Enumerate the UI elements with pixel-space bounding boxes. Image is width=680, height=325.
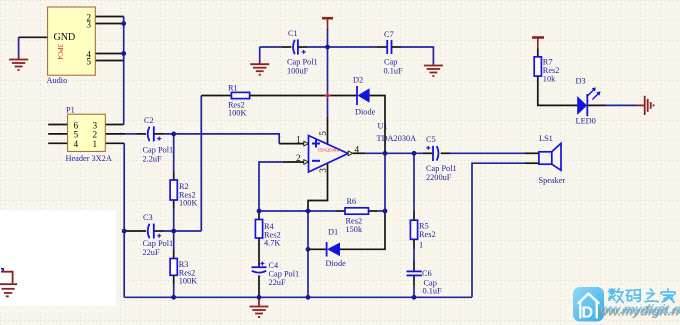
opamp pin3 lead bbox=[308, 163, 328, 211]
家 bbox=[661, 289, 675, 302]
R1 leads row bbox=[201, 95, 231, 97]
svg-text:100K: 100K bbox=[179, 277, 197, 286]
svg-text:1: 1 bbox=[419, 240, 423, 249]
wire: C2 to opamp step bbox=[164, 134, 279, 144]
wire: C3 row bbox=[164, 230, 201, 232]
svg-text:C5: C5 bbox=[426, 135, 436, 144]
wire: R2 column bbox=[173, 134, 175, 172]
wire: header pin2 to C2 bbox=[125, 133, 137, 135]
LED D3 bbox=[576, 77, 601, 126]
svg-text:22uF: 22uF bbox=[143, 248, 160, 257]
C3 plates bbox=[148, 224, 150, 238]
svg-text:Cap Pol1: Cap Pol1 bbox=[287, 58, 318, 67]
junction FB row / R6 left / D1 branch bbox=[306, 209, 311, 214]
junction C4 / gnd rail bbox=[257, 295, 262, 300]
svg-text:LS1: LS1 bbox=[539, 134, 553, 143]
svg-text:100uF: 100uF bbox=[287, 67, 309, 76]
wire: LED to gnd bbox=[606, 104, 636, 106]
R5 leads bbox=[413, 211, 415, 221]
C4 plates bbox=[252, 266, 267, 268]
red junction marker at power/D2 node bbox=[325, 93, 331, 99]
junction C2 out / R2 top (node IN+) bbox=[171, 132, 176, 137]
svg-text:100K: 100K bbox=[179, 199, 197, 208]
wire: audio gnd drop bbox=[18, 37, 20, 56]
R4 leads bbox=[258, 211, 260, 220]
C1 pin leads bbox=[282, 46, 291, 48]
wire: R1 left vertical bbox=[200, 96, 202, 232]
junction D1 left / branch vertical bbox=[306, 247, 311, 252]
capacitor C2 bbox=[143, 116, 174, 164]
U1 minus input marker bbox=[312, 160, 320, 162]
svg-text:Res2: Res2 bbox=[419, 230, 436, 239]
D2 leads bbox=[370, 96, 385, 154]
svg-text:D: D bbox=[582, 305, 594, 322]
svg-text:D1: D1 bbox=[328, 228, 338, 237]
opamp pin5 lead bbox=[327, 117, 329, 144]
LS1 box bbox=[539, 152, 552, 164]
capacitor C6 bbox=[407, 269, 443, 296]
svg-text:Diode: Diode bbox=[355, 108, 376, 117]
ground right of LED (rotated) bbox=[636, 96, 654, 115]
black pin segments bbox=[19, 17, 606, 298]
junction R3 bottom / gnd rail bbox=[171, 295, 176, 300]
码 bbox=[626, 290, 640, 302]
capacitor C5 bbox=[426, 135, 457, 182]
svg-text:1: 1 bbox=[93, 140, 98, 150]
svg-text:Speaker: Speaker bbox=[539, 176, 566, 185]
resistor R3 bbox=[170, 259, 197, 286]
svg-text:TDA2030A: TDA2030A bbox=[377, 134, 417, 143]
C6 leads bbox=[413, 262, 415, 272]
svg-text:U1: U1 bbox=[378, 122, 388, 131]
wire: bottom rail bbox=[124, 296, 472, 298]
ground below C1 bbox=[250, 63, 269, 75]
svg-text:3: 3 bbox=[319, 168, 329, 173]
svg-text:5: 5 bbox=[86, 57, 91, 67]
power bar VCC above R7 bbox=[532, 38, 544, 49]
audio connector pins bbox=[95, 16, 123, 18]
wire: C1 row bbox=[260, 46, 282, 48]
LS1 horn bbox=[552, 143, 561, 170]
wire: header pin1 down long vertical bbox=[123, 143, 125, 297]
junction C6 / gnd rail bbox=[412, 295, 417, 300]
D3 triangle bbox=[577, 96, 587, 115]
junction output / D2 branch bbox=[383, 151, 388, 156]
R7 body bbox=[534, 57, 541, 76]
wire: pin2 to feedback node bbox=[259, 162, 283, 211]
junction left bus / C3 row bbox=[122, 229, 127, 234]
svg-text:0.1uF: 0.1uF bbox=[384, 67, 404, 76]
capacitor C3 bbox=[143, 213, 174, 257]
svg-text:5: 5 bbox=[319, 131, 329, 136]
svg-text:Cap Pol1: Cap Pol1 bbox=[143, 239, 174, 248]
U1 pin 1 arrowhead bbox=[304, 141, 309, 146]
C6 plates bbox=[407, 270, 422, 272]
wire: D1 branch vertical bbox=[307, 211, 309, 297]
R7 leads bbox=[537, 49, 539, 57]
ground bottom-left margin bbox=[0, 272, 17, 297]
svg-text:GND: GND bbox=[54, 32, 76, 43]
resistor R4 bbox=[255, 220, 280, 248]
white margin area bottom-left bbox=[0, 211, 116, 307]
wire: audio pins bus vertical bbox=[123, 17, 125, 125]
junction audio pin3 / bus bbox=[121, 21, 126, 26]
wire: feedback row bbox=[259, 210, 336, 212]
wire: R5 column bbox=[413, 153, 415, 210]
svg-text:3PC4: 3PC4 bbox=[56, 44, 64, 60]
junction pin2 / R4 top (node FB) bbox=[257, 209, 262, 214]
wire: speaker return bbox=[472, 163, 525, 297]
R2 leads bbox=[173, 172, 175, 181]
ground below C4 bbox=[250, 297, 269, 317]
diode D1 bbox=[326, 228, 347, 268]
connector P1 bbox=[66, 105, 112, 163]
之 bbox=[645, 289, 658, 302]
power bar VCC top center bbox=[322, 18, 333, 29]
U1 pin 4 arrowhead bbox=[348, 151, 353, 156]
svg-text:100K: 100K bbox=[228, 109, 246, 118]
svg-text:4.7K: 4.7K bbox=[264, 239, 280, 248]
R1 body bbox=[231, 92, 249, 98]
svg-text:C1: C1 bbox=[288, 29, 298, 38]
D2 triangle bbox=[358, 88, 370, 102]
wire: output down vertical bbox=[384, 153, 386, 211]
resistor R2 bbox=[170, 180, 197, 208]
C5 pin leads bbox=[423, 152, 433, 154]
C5 plates bbox=[432, 146, 434, 161]
diode D2 bbox=[353, 76, 376, 117]
svg-text:Cap Pol1: Cap Pol1 bbox=[426, 164, 457, 173]
D1 cathode bar bbox=[326, 242, 328, 257]
svg-text:Cap: Cap bbox=[384, 58, 397, 67]
speaker LS1 bbox=[539, 134, 566, 185]
svg-text:Header 3X2A: Header 3X2A bbox=[66, 154, 112, 163]
R6 body bbox=[345, 208, 369, 214]
svg-text:ww.mydigit.net: ww.mydigit.net bbox=[598, 304, 680, 319]
svg-text:10k: 10k bbox=[543, 74, 556, 83]
R3 leads bbox=[173, 250, 175, 259]
svg-text:150k: 150k bbox=[346, 225, 363, 234]
D3 cathode bar bbox=[586, 94, 588, 116]
D2 cathode bar bbox=[356, 86, 358, 105]
capacitor C1 bbox=[287, 29, 318, 76]
svg-text:TDA2030A: TDA2030A bbox=[318, 147, 341, 152]
wire: output row bbox=[365, 152, 423, 154]
D1 triangle bbox=[327, 243, 340, 257]
wire stub into margin ground bbox=[1, 269, 3, 272]
resistor R5 bbox=[410, 220, 435, 249]
header pins bbox=[48, 124, 67, 126]
svg-text:4: 4 bbox=[74, 140, 79, 150]
svg-text:Audio: Audio bbox=[47, 76, 68, 85]
svg-text:2: 2 bbox=[296, 154, 301, 164]
opamp pin1 lead bbox=[279, 143, 304, 145]
svg-text:C6: C6 bbox=[422, 269, 432, 278]
C7 plates bbox=[386, 40, 388, 54]
U1 plus input marker bbox=[312, 140, 320, 148]
svg-text:2200uF: 2200uF bbox=[426, 173, 452, 182]
svg-text:3: 3 bbox=[86, 20, 91, 30]
svg-text:Cap Pol1: Cap Pol1 bbox=[143, 146, 174, 155]
svg-text:R6: R6 bbox=[347, 197, 357, 206]
U1 triangle body bbox=[309, 136, 349, 173]
数 bbox=[609, 289, 624, 303]
resistor R1 bbox=[228, 83, 250, 117]
junction VCC / C1-C7 row bbox=[325, 45, 330, 50]
opamp pin4 lead bbox=[353, 152, 365, 154]
junction R6 right / output branch bbox=[383, 209, 388, 214]
svg-text:C2: C2 bbox=[144, 116, 154, 125]
speaker pins bbox=[525, 152, 539, 154]
svg-text:C7: C7 bbox=[384, 30, 394, 39]
R4 body bbox=[255, 220, 262, 239]
opamp pin2 lead bbox=[283, 161, 304, 163]
svg-text:4: 4 bbox=[355, 146, 360, 156]
junction R2 bottom / C3 row bbox=[171, 229, 176, 234]
resistor R6 bbox=[345, 197, 369, 234]
R6 leads bbox=[336, 210, 345, 212]
wire: R3 column bbox=[173, 231, 175, 250]
svg-text:1: 1 bbox=[296, 136, 301, 146]
capacitor C7 bbox=[384, 30, 404, 76]
op-amp U1 TDA2030A bbox=[296, 122, 416, 173]
LED right lead bbox=[587, 104, 606, 106]
junction output / R5 branch bbox=[412, 151, 417, 156]
resistor R7 bbox=[534, 57, 559, 84]
connector Audio body bbox=[47, 7, 96, 85]
C1 plates bbox=[293, 40, 295, 54]
ground below C7 bbox=[424, 63, 443, 76]
svg-text:Diode: Diode bbox=[326, 259, 347, 268]
wire: power column bbox=[327, 29, 329, 117]
wire: R6 right bbox=[377, 210, 385, 212]
C3 pin leads bbox=[124, 230, 146, 232]
svg-text:0.1uF: 0.1uF bbox=[423, 287, 443, 296]
svg-text:LED0: LED0 bbox=[576, 117, 596, 126]
svg-text:22uF: 22uF bbox=[269, 278, 286, 287]
C2 plates bbox=[148, 127, 150, 141]
R5 body bbox=[410, 220, 417, 239]
D3 emission arrows bbox=[588, 90, 599, 100]
svg-text:D2: D2 bbox=[353, 76, 363, 85]
R3 body bbox=[170, 259, 177, 276]
U1 pin 2 arrowhead bbox=[304, 160, 309, 165]
junction D1 branch / gnd rail bbox=[306, 295, 311, 300]
P1 body bbox=[68, 114, 106, 151]
ground below Audio bbox=[9, 57, 28, 71]
R2 body bbox=[170, 180, 177, 200]
svg-text:R1: R1 bbox=[228, 83, 238, 92]
svg-text:2.2uF: 2.2uF bbox=[143, 155, 163, 164]
wire: C1 gnd drop bbox=[259, 47, 261, 63]
junction audio pin4 / bus bbox=[121, 51, 126, 56]
C7 pin leads bbox=[377, 46, 387, 48]
D1 leads bbox=[308, 248, 327, 250]
capacitor C4 bbox=[252, 261, 300, 287]
svg-text:C3: C3 bbox=[143, 213, 153, 222]
svg-text:P1: P1 bbox=[66, 105, 75, 114]
C2 pin leads bbox=[137, 133, 147, 135]
svg-text:D3: D3 bbox=[576, 77, 586, 86]
